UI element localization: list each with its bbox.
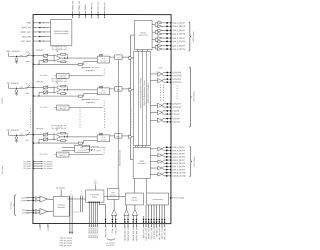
svg-text:INP7: INP7 (25, 130, 28, 132)
ground symbol ch7 (15, 139, 18, 141)
pin INM1 (33, 95, 35, 97)
svg-text:VDDD_1V8: VDDD_1V8 (79, 1, 81, 10)
svg-text:DCLKP: DCLKP (173, 118, 181, 120)
aux output driver 2 (158, 160, 162, 164)
stubs core to aux ADC (134, 146, 136, 148)
feedback element bottom ch7 (61, 140, 66, 142)
output DCLKM (164, 121, 172, 123)
pin INM7 (33, 142, 35, 144)
pin TM_SD0In (left) (33, 161, 43, 163)
svg-text:DAL4_OUTM: DAL4_OUTM (173, 48, 186, 51)
xtal osc buffer (111, 209, 116, 215)
svg-text:CLK Input: CLK Input (10, 201, 13, 209)
svg-text:DAL4_OUTP: DAL4_OUTP (173, 44, 186, 47)
lines aux ADC down to bottom blocks (134, 178, 136, 193)
pin VDDA_1V8 (top) (72, 11, 74, 18)
DAC loopback bus (130, 35, 132, 160)
svg-text:INM7: INM7 (25, 140, 29, 142)
svg-text:TM_SD0In: TM_SD0In (23, 161, 31, 163)
svg-text:CM_IN 2kΩ: CM_IN 2kΩ (39, 154, 48, 156)
svg-text:OSC_QP_OUTP: OSC_QP_OUTP (60, 245, 72, 247)
stub ref box to ch1 TM ctrl (56, 46, 58, 47)
output CMLB_OUTM (164, 175, 171, 177)
svg-text:TM_SD1In: TM_SD1In (23, 163, 31, 165)
pin VDD_OTPG_IN (bottom) (142, 216, 144, 227)
attenuator element bottom ch1 (44, 91, 48, 94)
svg-text:Dec: Dec (117, 89, 120, 91)
pin VREF_IO (top) (91, 11, 93, 18)
svg-text:OSC_QP_OUTM: OSC_QP_OUTM (60, 243, 73, 245)
switch ch7 (24, 134, 28, 137)
SD ADC box ch7 (97, 135, 110, 142)
svg-text:DCLKM: DCLKM (173, 122, 181, 124)
svg-text:TEST_EN_SEL_N: TEST_EN_SEL_N (164, 225, 166, 240)
feedback wires ch0 (57, 54, 59, 56)
svg-text:DAL2_OUTM: DAL2_OUTM (173, 33, 186, 36)
svg-text:DAL1_OUTP: DAL1_OUTP (173, 22, 186, 25)
pin TDC_CKOUT_1 (bottom) (90, 202, 92, 227)
svg-text:DOUTM7: DOUTM7 (173, 107, 183, 109)
brace ADC outputs (189, 147, 192, 177)
svg-text:FCLKM: FCLKM (173, 114, 180, 116)
pin TEST_EN_SEL_N (bottom) (164, 205, 166, 227)
lower filter element ch7 (78, 142, 82, 144)
pin SPI_CS_N_LVIN (bottom) (161, 205, 163, 227)
svg-text:ADC Outputs: ADC Outputs (193, 156, 196, 166)
pin TM_SD1In (left) (33, 163, 43, 165)
svg-text:SPI_SDI_LVIN: SPI_SDI_LVIN (156, 225, 158, 237)
svg-text:4: 4 (71, 191, 72, 193)
dashed TM_Ctrl box ch0 (52, 47, 66, 50)
dashed TDC Control line (89, 146, 94, 148)
LVDS driver pair 1 (158, 72, 163, 77)
svg-text:DAL1_OUTM: DAL1_OUTM (173, 25, 186, 28)
svg-text:CM_IN 2kΩ: CM_IN 2kΩ (40, 75, 49, 77)
pin TM_SD2In (left) (33, 165, 43, 167)
svg-text:x1, x2, CIkm: x1, x2, CIkm (78, 150, 87, 152)
output CMLB_OUTP (164, 172, 171, 174)
phase clock lines (69, 195, 71, 233)
svg-text:4X_CLK(8): 4X_CLK(8) (56, 187, 65, 189)
block AI Phase Generator (53, 196, 69, 216)
CM_IN wire ch1 (69, 107, 103, 109)
svg-text:FCLKP: FCLKP (173, 111, 180, 113)
svg-text:CMLB_OUTM: CMLB_OUTM (173, 176, 186, 178)
output FCLKM (164, 113, 172, 115)
svg-text:DMIC_DAT: DMIC_DAT (21, 31, 32, 34)
output DAL4_OUTM (155, 48, 158, 50)
svg-text:DIA.4_OUTP: DIA.4_OUTP (173, 146, 186, 149)
svg-text:LP: LP (100, 87, 102, 89)
output DOUTM7 (164, 106, 172, 108)
xtal brace + label (107, 238, 115, 241)
svg-text:TDC_CKOUT_4: TDC_CKOUT_4 (97, 225, 99, 238)
output DAL4_OUTP (155, 45, 157, 47)
svg-text:INP0: INP0 (25, 52, 28, 54)
svg-text:DIA.6_OUTP: DIA.6_OUTP (173, 159, 186, 162)
sense buffer 1 (124, 209, 129, 215)
CM_IN wire ch7 (69, 154, 103, 156)
dashed harmonic-reject feedback ch1 (82, 98, 90, 100)
output DOUTP7 (164, 103, 172, 105)
svg-text:DIA.4_OUTM: DIA.4_OUTM (173, 149, 186, 152)
svg-text:PLL: PLL (81, 147, 84, 149)
svg-text:Instrumentation Data: Instrumentation Data (118, 150, 121, 166)
feedback element top ch0 (61, 53, 66, 55)
elbow wire to AVD_SUB pin (98, 202, 100, 204)
svg-text:CM_Ovl: CM_Ovl (87, 149, 93, 151)
input rails ch7 (33, 134, 43, 136)
feedback element bottom ch1 (61, 93, 66, 95)
svg-text:OSC_DP_OUTM: OSC_DP_OUTM (60, 238, 73, 240)
output DAL2_OUTM (155, 33, 158, 35)
pin TDC_CKOUT_4 (bottom) (96, 202, 98, 227)
buffer to digital core ch7 (129, 135, 132, 139)
svg-text:Attenuator: Attenuator (36, 80, 44, 83)
brace DAC outputs (189, 22, 192, 51)
pin SENSE_INP_LVA0 (bottom) (124, 215, 126, 227)
svg-text:VDDA_1V8: VDDA_1V8 (71, 1, 74, 10)
output DCLKP (164, 118, 172, 120)
svg-text:CM_Ovl: CM_Ovl (88, 102, 94, 104)
svg-text:DOUTP7: DOUTP7 (173, 104, 182, 106)
channel ellipsis dashes (29, 108, 31, 127)
output DIA.6_OUTP (164, 159, 171, 161)
pin DMIC_DAT (left) (33, 31, 50, 33)
decimation filter box ch7 (114, 134, 122, 138)
LVDS ellipsis dashes (159, 85, 161, 101)
LVDS driver 3 (158, 103, 163, 108)
pin SENSE_INM_LVB3 (bottom) (135, 215, 137, 227)
LP chopper box ch0 (99, 54, 102, 56)
svg-text:DOUTP0: DOUTP0 (173, 72, 182, 74)
output DOUTM0 (164, 74, 172, 76)
pin OSC_BIAS (left) (33, 40, 50, 42)
svg-text:DOUTP1: DOUTP1 (173, 79, 182, 81)
dashed CM feedback ch0 (87, 70, 96, 72)
capacitor to ground ch1 (15, 90, 18, 93)
svg-text:Dec: Dec (117, 57, 120, 59)
PGA amplifier ch1 (54, 87, 61, 94)
svg-text:LP: LP (100, 55, 102, 57)
svg-text:CM_Ovl: CM_Ovl (88, 70, 94, 72)
pin SEN_CS_SEL_N (bottom) (150, 205, 152, 227)
dashed CM feedback ch1 (87, 101, 95, 103)
pin SENSE_INM_LVA1 (bottom) (127, 215, 129, 227)
pin INP0 (28, 55, 33, 57)
svg-text:DAL2_OUTP: DAL2_OUTP (173, 29, 186, 32)
ground symbol ch0 (15, 61, 18, 63)
pin VCM_OUT (top) (97, 11, 99, 18)
svg-text:INM1: INM1 (25, 93, 29, 95)
PGA amplifier ch7 (54, 134, 61, 141)
aux output driver 4 (158, 172, 162, 176)
svg-text:DAL3_OUTM: DAL3_OUTM (173, 40, 186, 43)
pin PWR_ON_RST_N (bottom) (145, 205, 147, 227)
svg-text:BIAS_SPI: BIAS_SPI (22, 26, 31, 29)
svg-text:Dec: Dec (117, 136, 120, 138)
svg-text:DIA.7_OUTM: DIA.7_OUTM (173, 168, 186, 171)
svg-text:Attenuator: Attenuator (36, 48, 44, 51)
stubs DAC to digital core (137, 50, 139, 52)
buffer to digital core ch0 (129, 56, 132, 60)
decimation filter box ch1 (115, 87, 123, 91)
feedback wires ch7 (56, 133, 58, 135)
dashed CM feedback ch7 (86, 148, 94, 150)
dashed harmonic-reject feedback ch7 (82, 145, 90, 147)
pin XTAL_OUT (bottom) (115, 215, 117, 227)
dashed TM_Ctrl box ch1 (52, 79, 66, 82)
chip boundary frame (33, 14, 171, 223)
internal source box ch1 (57, 105, 70, 110)
capacitor to ground ch0 (15, 58, 18, 61)
svg-text:DOUTM0: DOUTM0 (173, 75, 183, 77)
buffer to digital core ch1 (129, 88, 132, 92)
attenuator element top ch1 (44, 86, 48, 89)
feedback wires ch1 (57, 86, 59, 88)
pin SPI_SDO_LVOUT (bottom) (158, 205, 160, 227)
svg-text:CM_IN 2kΩ: CM_IN 2kΩ (40, 107, 49, 109)
SD ADC box ch0 (97, 56, 110, 63)
svg-text:CLKM_b: CLKM_b (22, 213, 29, 215)
capacitor to ground ch7 (15, 137, 18, 140)
block OTPG Generator (125, 193, 143, 205)
svg-text:SENSE_INM_LVA1: SENSE_INM_LVA1 (127, 226, 130, 242)
svg-text:TM_SD2In: TM_SD2In (23, 166, 31, 168)
svg-text:8xDAC: 8xDAC (141, 31, 147, 34)
dashed TM_Ctrl box ch7 (52, 126, 66, 129)
feedback element top ch7 (61, 132, 66, 134)
lower filter element ch0 (78, 63, 82, 65)
output FCLKP (164, 110, 172, 112)
svg-text:600Ω Outputs: 600Ω Outputs (192, 31, 195, 42)
dashed rate line (89, 150, 92, 152)
svg-text:VREF_IO: VREF_IO (91, 2, 93, 10)
block MUX Generator (107, 189, 119, 200)
block PLL (74, 145, 89, 152)
svg-text:DIG_VDB: DIG_VDB (22, 36, 31, 38)
pin SPI_SCLK_LVIN (bottom) (153, 205, 155, 227)
output DOUTP1 (164, 78, 172, 80)
LVDS driver pair 2 (158, 78, 163, 83)
pin TDC_CKOUT_0 (bottom) (88, 202, 90, 227)
aux output driver 0 (158, 147, 162, 151)
svg-text:VDDIO: VDDIO (85, 4, 87, 10)
output DIA.5_OUTM (164, 156, 171, 158)
feedback element bottom ch0 (61, 61, 66, 63)
block aux SAR ADC (133, 147, 150, 178)
svg-text:AVD_SUB_CK: AVD_SUB_CK (104, 225, 107, 238)
pin AVD_SUB_CK (bottom) (105, 205, 107, 227)
block TDC Control Engine (86, 190, 104, 202)
svg-text:OSC_DP_OUTP: OSC_DP_OUTP (60, 240, 72, 242)
aux output driver 3 (158, 166, 162, 170)
svg-text:INM0: INM0 (25, 61, 29, 63)
svg-text:DOUTM1: DOUTM1 (173, 82, 183, 84)
output DIA.6_OUTM (164, 162, 171, 164)
LP chopper box ch7 (99, 133, 102, 135)
svg-text:DAL3_OUTP: DAL3_OUTP (173, 37, 186, 40)
svg-text:XTAL_IN: XTAL_IN (111, 225, 114, 233)
pin TEST_SDO (right) (171, 197, 173, 199)
output DOUTM1 (164, 81, 172, 83)
output DIA.5_OUTP (164, 153, 171, 155)
pin RESET_N_LVIN (bottom) (148, 205, 150, 227)
TDC engine output dots (88, 201, 90, 203)
feedback element top ch1 (61, 85, 66, 87)
svg-text:PWR_ON_RST_N: PWR_ON_RST_N (146, 225, 148, 240)
block digital processing core (134, 51, 151, 145)
output DAL1_OUTM (155, 25, 158, 27)
pin TDC_CKOUT_2 (bottom) (92, 202, 94, 227)
svg-text:REF_SOURCE: REF_SOURCE (7, 51, 20, 53)
output DAL3_OUTM (155, 40, 158, 42)
sense buffer 2 (132, 209, 137, 215)
output DIA.7_OUTM (164, 169, 171, 171)
LVDS driver 5 (158, 118, 163, 123)
svg-text:INP1: INP1 (25, 83, 28, 85)
wire TDC to OTPG (104, 196, 125, 198)
ground symbol ch1 (15, 92, 18, 94)
output DAL3_OUTP (155, 37, 158, 39)
input rails ch1 (33, 87, 43, 89)
pin SENSE_INP_LVB2 (bottom) (132, 215, 134, 227)
internal source box ch7 (56, 152, 69, 157)
lower filter element ch1 (78, 95, 82, 97)
LVDS driver 4 (158, 110, 163, 115)
svg-text:XTAL_OUT: XTAL_OUT (114, 225, 117, 235)
source wire ch7 (7, 131, 9, 135)
svg-text:TM_SD3In: TM_SD3In (23, 168, 31, 170)
pin SPI_SDI_LVIN (bottom) (156, 205, 158, 227)
pin DIG_VDB (left) (33, 36, 50, 38)
svg-text:DIA.7_OUTP: DIA.7_OUTP (173, 165, 186, 168)
svg-text:SUBB: SUBB (40, 225, 42, 231)
wire into DAC block (131, 34, 135, 36)
pin TDC_CKOUT_3 (bottom) (94, 202, 96, 227)
svg-text:Current Generator: Current Generator (54, 32, 69, 35)
svg-text:OTPG: OTPG (132, 197, 137, 199)
svg-text:Digital I/O Demodulator Contro: Digital I/O Demodulator Control (143, 80, 146, 106)
svg-text:GNDD: GNDD (48, 225, 50, 231)
pins SUBB GNDD (39, 223, 41, 227)
svg-text:CMLB_OUTP: CMLB_OUTP (173, 172, 186, 174)
pin VDD_PLL (top) (103, 11, 105, 18)
svg-text:SENSE_INP_LVA0: SENSE_INP_LVA0 (124, 226, 127, 241)
brace LVDS outputs (189, 67, 192, 127)
svg-text:Digital Processing (Decimation: Digital Processing (Decimation Filters) (139, 77, 142, 108)
svg-text:2: 2 (71, 193, 72, 195)
internal source box ch0 (57, 73, 70, 78)
pin INP7 (28, 134, 33, 136)
dashed harmonic-reject feedback ch0 (82, 66, 90, 68)
DAC output pair forks (152, 24, 155, 26)
svg-text:RESET_N_LVIN: RESET_N_LVIN (148, 225, 150, 239)
svg-text:LVDS Outputs: LVDS Outputs (192, 91, 195, 102)
pin VDDIO (top) (84, 11, 86, 18)
housekeeping bus (117, 60, 119, 188)
source wire ch1 (8, 84, 10, 88)
LP chopper box ch1 (99, 86, 102, 88)
brace clock inputs (13, 195, 16, 216)
svg-text:TEST_SDO: TEST_SDO (173, 198, 184, 200)
CM_IN wire ch0 (69, 75, 103, 77)
PLL input wires (62, 146, 74, 148)
attenuator element top ch0 (44, 54, 48, 57)
attenuator element top ch7 (43, 133, 47, 136)
svg-text:Attenuator: Attenuator (36, 127, 44, 130)
svg-text:600Ω LINEDR: 600Ω LINEDR (139, 35, 148, 37)
SD ADC box ch1 (97, 88, 110, 95)
svg-text:CLKP_1a: CLKP_1a (21, 197, 29, 199)
switch ch0 (24, 55, 28, 58)
svg-text:DIA.6_OUTM: DIA.6_OUTM (173, 162, 186, 165)
svg-text:ADC2: ADC2 (140, 160, 145, 163)
svg-text:VDD_PLL: VDD_PLL (104, 2, 106, 10)
pin VDB (left) (33, 22, 50, 24)
clock input pair 2 (26, 209, 34, 211)
attenuator element bottom ch0 (44, 59, 48, 62)
output DIA.4_OUTM (164, 149, 171, 151)
clock input pair 1 (26, 197, 34, 199)
svg-text:SENSE_INP_LVB2: SENSE_INP_LVB2 (133, 226, 135, 241)
svg-text:SPI_CS_N_LVIN: SPI_CS_N_LVIN (162, 225, 164, 239)
attenuator element bottom ch7 (43, 138, 47, 141)
input rails ch0 (33, 55, 43, 57)
wire phase gen to TDC engine (67, 198, 86, 200)
svg-text:LVDS Serializer Interface: LVDS Serializer Interface (147, 83, 150, 103)
svg-text:Engine: Engine (92, 196, 97, 198)
svg-text:LP: LP (100, 134, 102, 136)
output DIA.7_OUTP (164, 165, 171, 167)
block Reference Voltage Current Generator (50, 20, 71, 46)
svg-text:Generator: Generator (57, 206, 65, 209)
pin BIAS_SPI (left) (33, 26, 50, 28)
block Serial Interface (147, 193, 169, 205)
svg-text:SENSE_INM_LVB3: SENSE_INM_LVB3 (136, 226, 138, 242)
svg-text:CLKM_1a: CLKM_1a (21, 200, 29, 202)
output DIA.4_OUTP (164, 146, 171, 148)
pin INP1 (28, 87, 33, 89)
svg-text:SPI_SCLK_LVIN: SPI_SCLK_LVIN (154, 225, 156, 239)
aux output driver 1 (158, 153, 162, 157)
decimation filter box ch0 (115, 55, 123, 59)
pin XTAL_IN (bottom) (111, 215, 113, 227)
output DAL2_OUTP (155, 29, 158, 31)
svg-text:OSC_BIAS: OSC_BIAS (21, 40, 32, 43)
pin TM_SD3In (left) (33, 167, 43, 169)
svg-text:VDB: VDB (27, 23, 32, 25)
output DAL1_OUTP (155, 22, 158, 24)
output DOUTP0 (164, 71, 171, 73)
pin VDDD_1V8 (top) (78, 11, 80, 18)
svg-text:DIA.5_OUTP: DIA.5_OUTP (173, 152, 186, 155)
pin INM0 (33, 63, 35, 65)
source wire ch0 (8, 53, 10, 57)
PGA amplifier ch0 (54, 55, 61, 62)
block DAC buffers (135, 20, 153, 49)
svg-text:DIA.5_OUTM: DIA.5_OUTM (173, 156, 186, 159)
switch ch1 (24, 87, 28, 90)
svg-text:VCM_OUT: VCM_OUT (98, 1, 100, 11)
